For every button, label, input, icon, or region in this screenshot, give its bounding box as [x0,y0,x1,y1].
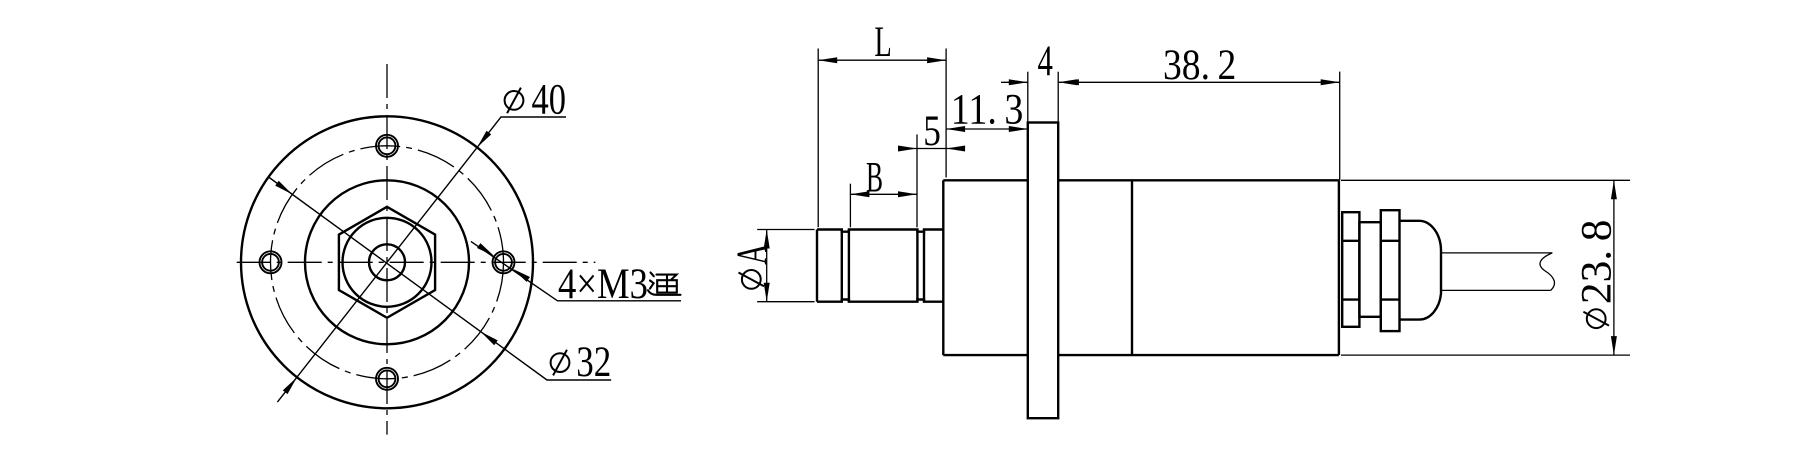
svg-text:A: A [729,244,776,265]
o40 arrow lower [283,377,297,394]
oA arrows [764,230,770,249]
5 arrows outside [898,146,917,152]
svg-text:B: B [866,154,883,201]
cable break curve [1540,253,1554,291]
extension line shaft left end [817,49,819,228]
o32 leader line [269,177,612,380]
label o32 symbol [551,353,570,372]
svg-text:38. 2: 38. 2 [1163,42,1236,89]
center shaft hole [369,244,405,280]
M3 hole top [376,135,398,157]
outer flange circle o40 [241,116,533,408]
gland nut ring 3 [1381,210,1400,331]
M3 hole right [493,251,515,273]
4xM3 arrow upper-left [477,243,494,256]
svg-text:L: L [874,19,891,66]
extension line body left face [945,49,947,178]
main body [943,179,1028,181]
11.3 arrows [946,126,965,132]
shaft outline [817,230,943,232]
left view: flange front [241,116,533,408]
o23.8 arrows [1611,180,1617,199]
gland dome cap [1400,221,1442,320]
horizontal centerline [237,261,596,263]
o32 arrow lower-right [481,332,498,346]
extension line seg2 right [916,134,918,227]
svg-text:4×M3: 4×M3 [558,261,648,308]
svg-text:5: 5 [923,108,941,155]
4xM3 arrow lower-right [513,269,530,282]
dim line 5 [903,148,961,150]
extension lines flange faces [1027,72,1029,123]
bolt circle o32 dash-dot [271,146,504,379]
extension lines o23.8 [1341,179,1630,181]
body circle [305,180,469,344]
dim text o23.8 rotated [1574,219,1621,328]
o40 arrow upper [477,131,491,148]
dim line 4 and 38.2 [1001,81,1028,83]
hex nut [339,207,435,318]
svg-text:40: 40 [532,77,567,124]
body internal split line [1131,180,1133,355]
label o40 symbol [505,91,524,110]
o40 leader line [277,117,566,402]
dim line 11.3 [946,128,1028,130]
hex inscribed circle [343,218,432,307]
extension lines oA [757,229,814,231]
svg-text:4: 4 [1038,38,1053,85]
4xM3 leader line [471,241,681,300]
B arrows [850,191,869,197]
vertical centerline [386,64,388,435]
mounting flange plate [1028,123,1058,419]
side view [817,123,1441,419]
dim line o23.8 [1613,180,1615,355]
4 arrows outside [1009,79,1028,85]
svg-text:23. 8: 23. 8 [1574,219,1621,304]
svg-text:32: 32 [576,339,611,386]
M3 hole bottom [376,368,398,390]
L arrows [818,57,837,63]
extension line seg2 left [849,184,851,228]
dim text oA rotated [729,244,776,289]
38.2 arrows [1060,79,1079,85]
o32 arrow upper-left [275,181,292,195]
M3 hole left [260,251,282,273]
label CJK tong through-hole [648,273,681,295]
dim line L [818,59,946,61]
gland ring 1 [1342,212,1359,327]
cable [1441,252,1552,254]
extension line body right face [1339,72,1341,181]
svg-text:11. 3: 11. 3 [951,87,1024,134]
dim line B [850,193,917,195]
dim line oA [766,230,768,302]
shaft groove lines [841,230,843,302]
gland ring 2 [1359,222,1380,317]
